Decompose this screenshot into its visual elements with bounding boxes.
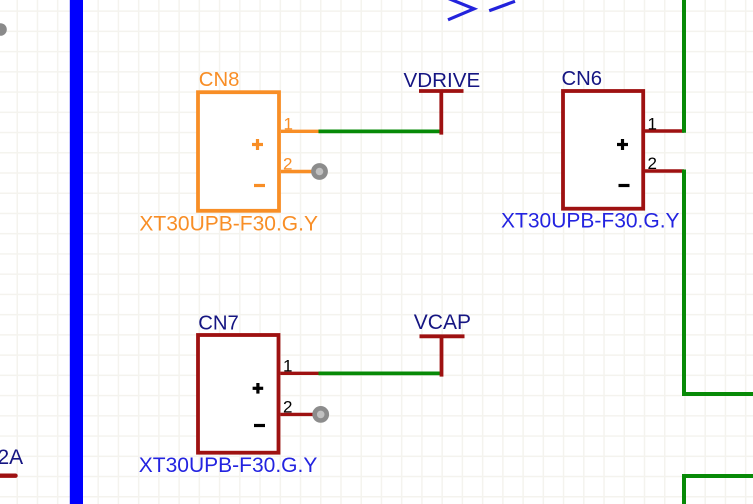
power port VDRIVE label [404,69,481,92]
svg-text:1: 1 [283,356,292,375]
power bar bottom left [0,474,16,478]
power port VDRIVE [419,91,464,135]
CN7 designator label [198,313,239,335]
CN8 pin 1 [281,130,319,133]
CN6 plus symbol [617,139,628,150]
CN6 pin 1 [645,129,684,132]
CN7 value label XT30UPB-F30.G.Y [139,454,318,477]
svg-text:2: 2 [283,155,292,174]
bus (blue vertical bar) [70,0,83,504]
wire CN8 pin1 to VDRIVE [319,130,442,134]
svg-text:1: 1 [648,114,657,133]
CN7 plus symbol [253,383,264,394]
svg-text:2: 2 [283,398,292,417]
wire CN6 pin1 up to sheet top [682,0,686,133]
CN8 designator label [199,69,240,91]
no-ERC marker CN7 pin 2 [312,406,329,423]
no-ERC marker CN8 pin 2 [311,163,328,180]
svg-text:CN8: CN8 [199,69,240,91]
CN7 pin 2 [281,413,318,416]
svg-text:XT30UPB-F30.G.Y: XT30UPB-F30.G.Y [501,210,680,233]
svg-text:2A: 2A [0,446,23,469]
net label 2A bottom left [0,446,23,469]
svg-text:CN7: CN7 [198,313,239,335]
CN8 value label XT30UPB-F30.G.Y [139,213,318,236]
partial text glyph chevron top [448,0,474,20]
CN8 pin 1 number [284,115,293,134]
CN7 pin 1 number [283,356,292,375]
CN6 pin 1 number [648,114,657,133]
CN7 minus symbol [254,424,265,427]
CN6 pin 2 number [648,154,657,173]
CN7 pin 2 number [283,398,292,417]
CN7 pin 1 [281,372,319,375]
CN8 plus symbol [252,139,263,150]
CN8 pin 2 number [283,155,292,174]
CN8 pin 2 [281,170,316,173]
svg-text:VCAP: VCAP [414,311,471,334]
CN6 value label XT30UPB-F30.G.Y [501,210,680,233]
svg-text:XT30UPB-F30.G.Y: XT30UPB-F30.G.Y [139,454,318,477]
svg-text:VDRIVE: VDRIVE [404,69,481,92]
svg-text:1: 1 [284,115,293,134]
wire CN7 pin1 to VCAP [319,372,442,376]
CN6 designator label [562,68,603,90]
CN8 minus symbol [254,184,265,187]
svg-text:XT30UPB-F30.G.Y: XT30UPB-F30.G.Y [139,213,318,236]
partial text glyph slash top [489,1,515,10]
power port VCAP [420,336,465,376]
no-ERC marker left edge [0,23,7,36]
connector CN6 body [563,91,643,209]
CN6 minus symbol [619,184,630,187]
wire bottom right corner [684,476,753,504]
wire CN6 pin2 down then right [684,170,753,395]
power port VCAP label [414,311,471,334]
connector CN8 body [198,92,279,211]
connector CN7 body [198,335,279,453]
svg-text:2: 2 [648,154,657,173]
svg-text:CN6: CN6 [562,68,603,90]
CN6 pin 2 [645,169,684,172]
